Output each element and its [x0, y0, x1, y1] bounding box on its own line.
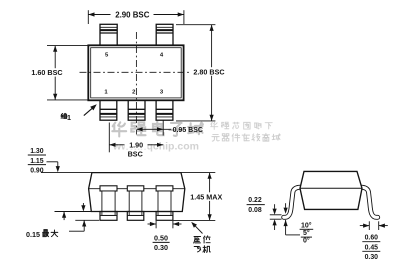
side view: lead 2 stem	[129, 191, 142, 215]
dimension 1.90 BSC: dimension line with arrows	[109, 144, 163, 146]
dimension 2.90 BSC: dimension line with arrows	[88, 14, 184, 16]
svg-text:0.95 BSC: 0.95 BSC	[173, 127, 203, 134]
top view: pin 4 lead	[156, 24, 173, 45]
dimension 0.95 BSC: extension lines	[162, 120, 164, 136]
svg-text:1.30: 1.30	[30, 148, 44, 155]
svg-text:1.15: 1.15	[30, 158, 44, 165]
svg-text:1.45 MAX: 1.45 MAX	[190, 193, 222, 202]
end view: right lead	[358, 187, 378, 217]
svg-text:0.08: 0.08	[248, 207, 262, 214]
end view: parting line	[300, 187, 362, 189]
svg-text:0.30: 0.30	[365, 254, 379, 261]
svg-text:0.15: 0.15	[26, 230, 40, 239]
dimension 0.60/0.45/0.30: extension ticks	[368, 221, 370, 230]
top view: pin 3 lead	[156, 100, 173, 120]
dimension 0.50/0.30: arrows	[148, 223, 157, 225]
svg-text:0.22: 0.22	[248, 197, 262, 204]
watermark big text 华强电子城	[112, 122, 203, 137]
dimension 2.80 BSC: dimension line with arrows	[211, 25, 213, 121]
watermark right line 1	[211, 122, 218, 129]
seating plane extension line (left)	[75, 219, 99, 221]
top view: package body inner outline	[91, 48, 182, 98]
top view: centerline vertical	[135, 32, 137, 135]
seating plane leader arrow	[194, 224, 203, 233]
svg-text:0.50: 0.50	[154, 233, 168, 242]
dimension 0.60/0.45/0.30: arrows	[360, 225, 370, 227]
body height arrow up (bottom of 0.90-1.30 dim)	[63, 212, 65, 221]
svg-text:1.60 BSC: 1.60 BSC	[31, 68, 62, 77]
end view: body outline	[300, 171, 362, 209]
side view: lead 3 shoulder	[156, 186, 173, 191]
svg-text:5°: 5°	[303, 229, 310, 237]
dimension 0.22/0.08: gage extension lines	[270, 214, 282, 216]
dimension 1.60 BSC: dimension line with arrows	[54, 46, 56, 100]
dimension 2.90 BSC: extension lines	[87, 10, 89, 24]
top view: pin 1 lead	[100, 100, 117, 120]
side view: lead 1 shoulder	[100, 186, 117, 191]
svg-text:0°: 0°	[303, 237, 310, 245]
svg-text:2.90 BSC: 2.90 BSC	[115, 11, 150, 20]
pin 1 indicator arrow	[84, 107, 93, 115]
dimension 1.90 BSC: extension lines	[108, 123, 110, 153]
dimension 1.60 BSC: extension lines	[47, 45, 93, 47]
svg-text:1.90: 1.90	[129, 141, 143, 150]
watermark right line 2	[212, 134, 219, 141]
standoff arrow up with leader	[83, 220, 85, 231]
lead angle leader arrow	[285, 220, 287, 235]
svg-text:2.80 BSC: 2.80 BSC	[193, 67, 224, 76]
top view: pin 2 lead	[128, 100, 145, 120]
side view: parting line	[89, 188, 185, 190]
side view: lead 1 stem	[102, 191, 115, 215]
top view: pin 5 lead	[100, 24, 117, 45]
pin 1 label 销1	[61, 113, 67, 118]
top view: centerline horizontal	[80, 71, 190, 73]
side view: lead 2 shoulder	[127, 186, 144, 191]
dimension 1.45 MAX: dimension line with arrows	[209, 173, 211, 221]
body top extension line (left)	[41, 172, 92, 174]
side view: lead 3 foot	[156, 212, 173, 221]
svg-text:BSC: BSC	[128, 149, 143, 158]
dimension 0.50/0.30: extension lines	[155, 221, 157, 228]
top view: package body outer outline	[88, 45, 183, 100]
dimension stack leader to body top	[47, 161, 58, 163]
seating plane label 飞机	[194, 247, 201, 252]
side view: lead 2 foot	[127, 212, 144, 221]
side view: lead 3 stem	[158, 191, 171, 215]
body bottom extension line (left)	[55, 211, 92, 213]
dimension 1.45 MAX: extension lines	[181, 172, 215, 174]
seating plane label 座位	[194, 236, 201, 243]
svg-text:0.90: 0.90	[30, 168, 44, 175]
svg-text:1: 1	[67, 113, 71, 122]
standoff arrow down (top of 0.15 dim)	[82, 203, 84, 206]
dimension 2.80 BSC: extension lines	[176, 24, 215, 26]
svg-text:0.45: 0.45	[365, 244, 379, 251]
svg-text:10°: 10°	[301, 221, 312, 229]
side view: lead 1 foot	[100, 212, 117, 221]
dimension 0.22/0.08: arrows	[274, 204, 276, 209]
svg-text:0.30: 0.30	[154, 243, 168, 252]
svg-text:0.60: 0.60	[365, 235, 379, 242]
side view: body outline	[89, 173, 185, 212]
dimension 0.95 BSC: dimension line with arrows	[136, 128, 171, 130]
end view: left lead	[284, 187, 304, 217]
